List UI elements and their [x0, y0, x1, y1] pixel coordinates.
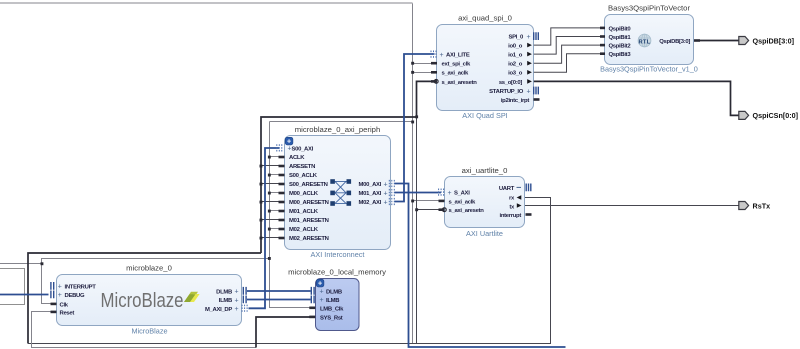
wire M_AXI_DP to S00_AXI (blue) [249, 148, 280, 308]
svg-text:ARESETN: ARESETN [289, 164, 315, 170]
svg-text:+: + [384, 200, 388, 207]
interface pin M01_AXI (dashed) [389, 189, 394, 196]
svg-text:DLMB: DLMB [326, 289, 342, 295]
pin tx arrow (output) [517, 203, 522, 208]
pin QspiBit3 stub [600, 52, 605, 55]
wire M02_ACLK stub [270, 228, 285, 230]
pin QspiBit2 stub [600, 44, 605, 47]
interface pin DEBUG [51, 291, 54, 299]
pin QspiBit0 stub [600, 27, 605, 30]
external port QspiDB[3:0] [739, 36, 794, 45]
interface pin M02_AXI (dashed) [389, 198, 394, 205]
svg-text:microblaze_0: microblaze_0 [126, 264, 172, 273]
wire ARESETN stub [261, 165, 285, 167]
svg-text:s_axi_aclk: s_axi_aclk [442, 71, 470, 77]
block axi_uartlite_0 [445, 166, 525, 238]
svg-text:AXI Uartlite: AXI Uartlite [466, 229, 503, 238]
svg-text:+: + [527, 88, 531, 95]
interface pin ILMB mb [243, 296, 246, 304]
pin s_axi_aclk (spi) stub [431, 71, 437, 74]
svg-text:io2_o: io2_o [508, 62, 523, 68]
junction dots aresetn net [260, 115, 419, 239]
pin s_axi_aresetn (spi) stub + ring [431, 80, 438, 84]
svg-text:+: + [320, 297, 324, 304]
svg-text:microblaze_0_local_memory: microblaze_0_local_memory [288, 268, 386, 277]
wire clock interconnect column [270, 122, 312, 308]
svg-text:Clk: Clk [60, 302, 69, 308]
svg-text:QspiBit2: QspiBit2 [609, 44, 632, 50]
wire clock from left edge [0, 263, 42, 265]
wire io1_o to QspiBit1 [534, 37, 601, 55]
svg-text:io3_o: io3_o [508, 71, 523, 77]
svg-text:DLMB: DLMB [216, 289, 232, 295]
svg-text:S00_AXI: S00_AXI [292, 146, 314, 152]
expand button microblaze_0_axi_periph [285, 137, 293, 146]
interface pin DLMB mb [243, 287, 246, 295]
wire M00_ACLK stub [270, 192, 285, 194]
expand button microblaze_0_local_memory [316, 279, 324, 288]
pin s_axi_aclk (uart) stub [439, 200, 445, 203]
svg-text:M02_ARESETN: M02_ARESETN [289, 236, 329, 242]
pin s_axi_aresetn (uart) stub + ring [439, 208, 447, 212]
svg-text:+: + [384, 182, 388, 189]
wire M02_ARESETN stub [261, 237, 285, 239]
svg-text:axi_quad_spi_0: axi_quad_spi_0 [458, 14, 512, 23]
wire M01_AXI to S_AXI (blue) [395, 192, 442, 194]
pin QspiDB stub [694, 39, 700, 42]
svg-text:+: + [235, 289, 239, 296]
svg-text:SPI_0: SPI_0 [508, 34, 524, 40]
block mdm_1 (partial, off-canvas left) [0, 269, 25, 305]
svg-text:S00_ACLK: S00_ACLK [289, 173, 318, 179]
pin LMB_Clk stub [309, 307, 315, 310]
wire ss_o to QspiCSn [534, 81, 739, 115]
wire M01_ARESETN stub [261, 219, 285, 221]
interface pin ILMB mem [311, 296, 314, 304]
pin ip2intc_irpt stub [534, 98, 540, 101]
svg-text:s_axi_aclk: s_axi_aclk [449, 199, 477, 205]
junction dots clock net [41, 62, 415, 265]
svg-text:AXI Interconnect: AXI Interconnect [311, 250, 365, 259]
interface pin S00_AXI (dashed) [277, 144, 282, 151]
svg-text:s_axi_aresetn: s_axi_aresetn [449, 208, 485, 214]
external port QspiCSn[0:0] [739, 111, 798, 120]
svg-text:interrupt: interrupt [499, 213, 521, 219]
wire ext_spi_clk stub [413, 63, 438, 65]
svg-text:M00_AXI: M00_AXI [359, 182, 382, 188]
MicroBlaze leaf logo [184, 292, 200, 302]
wire tx to RsTx [525, 205, 739, 207]
wire S00_ACLK stub [270, 174, 285, 176]
svg-text:M01_AXI: M01_AXI [359, 191, 382, 197]
svg-text:+: + [384, 191, 388, 198]
svg-text:QspiDB[3:0]: QspiDB[3:0] [659, 39, 690, 45]
wire S00_ARESETN stub [261, 183, 285, 185]
svg-text:QspiDB[3:0]: QspiDB[3:0] [753, 36, 795, 45]
svg-text:+: + [235, 306, 239, 313]
wire io0_o to QspiBit0 [534, 28, 601, 45]
wire aresetn vertical trunk right [416, 117, 418, 344]
pin rx arrow (input) [517, 195, 522, 200]
wire ILMB (blue) [247, 299, 311, 301]
svg-text:AXI Quad SPI: AXI Quad SPI [462, 111, 507, 120]
svg-text:QspiBit1: QspiBit1 [609, 35, 632, 41]
wire s_axi_aclk (spi) stub [413, 72, 438, 74]
svg-text:SYS_Rst: SYS_Rst [320, 315, 343, 321]
svg-text:M00_ARESETN: M00_ARESETN [289, 200, 329, 206]
svg-text:M02_AXI: M02_AXI [359, 200, 382, 206]
svg-text:LMB_Clk: LMB_Clk [320, 306, 344, 312]
svg-text:S_AXI: S_AXI [454, 191, 470, 197]
pin SYS_Rst stub [309, 316, 315, 319]
svg-text:axi_uartlite_0: axi_uartlite_0 [462, 166, 508, 175]
svg-text:ILMB: ILMB [219, 298, 232, 304]
wire AXI_LITE to M02_AXI (blue) [395, 54, 435, 202]
interface pin UART [526, 184, 531, 192]
svg-text:S00_ARESETN: S00_ARESETN [289, 182, 328, 188]
svg-text:QspiCSn[0:0]: QspiCSn[0:0] [753, 111, 799, 120]
wire reset net (Reset to SYS_Rst) [32, 312, 257, 348]
MicroBlaze big logo text [101, 290, 184, 312]
wire clock top trunk [0, 2, 413, 4]
external port RsTx [739, 202, 770, 211]
wire big loop left [28, 253, 261, 344]
interface pin SPI_0 [534, 32, 539, 40]
svg-text:AXI_LITE: AXI_LITE [446, 53, 470, 59]
pin QspiBit1 stub [600, 35, 605, 38]
wire clock left branch [42, 259, 270, 304]
svg-text:+: + [58, 292, 62, 299]
svg-text:+: + [448, 190, 452, 197]
svg-text:ILMB: ILMB [326, 298, 339, 304]
svg-text:+: + [320, 289, 324, 296]
svg-text:ext_spi_clk: ext_spi_clk [442, 62, 471, 68]
block Basys3QspiPinToVector [600, 4, 698, 74]
svg-text:M_AXI_DP: M_AXI_DP [205, 307, 232, 313]
svg-text:io1_o: io1_o [508, 53, 523, 59]
wire DEBUG (blue) [0, 294, 49, 296]
svg-text:MicroBlaze: MicroBlaze [131, 327, 167, 336]
pin io0_o arrow [527, 43, 532, 48]
wire aresetn horizontal to interconnect [261, 117, 417, 253]
wire uart s_axi_aclk [413, 200, 442, 202]
wire uart s_axi_aresetn [417, 209, 442, 211]
svg-text:QspiBit0: QspiBit0 [609, 26, 632, 32]
svg-text:STARTUP_IO: STARTUP_IO [489, 89, 524, 95]
block microblaze_0_axi_periph (AXI Interconnect) [285, 125, 391, 259]
wire io2_o to QspiBit2 [534, 45, 601, 63]
wire aresetn spi branch [417, 81, 438, 117]
pin io2_o arrow [527, 61, 532, 66]
pin ext_spi_clk stub [431, 62, 437, 65]
pin io3_o arrow [527, 70, 532, 75]
interface pin STARTUP_IO [534, 87, 539, 95]
svg-text:M01_ACLK: M01_ACLK [289, 209, 319, 215]
svg-text:io0_o: io0_o [508, 44, 523, 50]
interface pin DLMB mem [311, 287, 314, 295]
crossbar icon U interconnect [330, 179, 351, 206]
svg-text:RsTx: RsTx [753, 202, 771, 211]
wire io3_o to QspiBit3 [534, 54, 601, 73]
svg-text:ACLK: ACLK [289, 155, 305, 161]
svg-text:+: + [318, 279, 323, 288]
pin Clk stub [51, 303, 57, 306]
svg-text:s_axi_aresetn: s_axi_aresetn [442, 80, 478, 86]
wire QspiDB out [694, 40, 739, 42]
pin ss_o arrow [527, 79, 532, 84]
svg-text:DEBUG: DEBUG [65, 293, 85, 299]
svg-text:M02_ACLK: M02_ACLK [289, 227, 319, 233]
svg-text:+: + [440, 52, 444, 59]
interface pin AXI_LITE (dashed) [431, 51, 436, 58]
interface pin INTERRUPT [51, 282, 54, 290]
svg-text:QspiBit3: QspiBit3 [609, 52, 632, 58]
svg-text:Basys3QspiPinToVector_v1_0: Basys3QspiPinToVector_v1_0 [600, 65, 698, 74]
wire M01_ACLK stub [270, 210, 285, 212]
block microblaze_0 [57, 264, 242, 336]
wire DLMB (blue) [247, 290, 311, 292]
svg-text:UART: UART [499, 186, 515, 192]
wire big loop bottom (rx net) [28, 198, 551, 344]
pin Reset stub [51, 311, 57, 314]
pin io1_o arrow [527, 52, 532, 57]
pin interrupt stub [526, 213, 532, 216]
wire M00_ARESETN stub [261, 201, 285, 203]
svg-text:microblaze_0_axi_periph: microblaze_0_axi_periph [295, 125, 380, 134]
interface pin S_AXI uart (dashed) [439, 189, 444, 196]
pin stubs interconnect left simple [279, 156, 285, 240]
svg-text:M01_ARESETN: M01_ARESETN [289, 218, 329, 224]
svg-text:ss_o[0:0]: ss_o[0:0] [499, 80, 523, 86]
wire clock vertical main [412, 4, 414, 344]
svg-text:Basys3QspiPinToVector: Basys3QspiPinToVector [608, 4, 690, 13]
RTL icon U Basys3QspiPinToVector [638, 34, 651, 47]
svg-text:INTERRUPT: INTERRUPT [65, 284, 97, 290]
svg-text:M00_ACLK: M00_ACLK [289, 191, 319, 197]
interface pin M00_AXI (dashed) [389, 180, 394, 187]
block microblaze_0_local_memory [288, 268, 386, 331]
svg-text:+: + [58, 284, 62, 291]
wire clock to interconnect top [270, 121, 413, 123]
svg-text:+: + [287, 137, 292, 146]
block axi_quad_spi_0 [437, 14, 534, 121]
svg-text:+: + [527, 34, 531, 41]
interface pin M_AXI_DP (dashed) [242, 305, 247, 312]
svg-text:ip2intc_irpt: ip2intc_irpt [501, 98, 529, 104]
svg-text:+: + [235, 297, 239, 304]
wire M00_AXI down trunk (blue) [395, 184, 566, 348]
wire SYS_Rst drop [256, 317, 312, 348]
wire ACLK stub [270, 156, 285, 158]
svg-text:MicroBlaze: MicroBlaze [101, 290, 184, 312]
svg-text:RTL: RTL [638, 39, 650, 45]
svg-text:Reset: Reset [60, 310, 75, 316]
